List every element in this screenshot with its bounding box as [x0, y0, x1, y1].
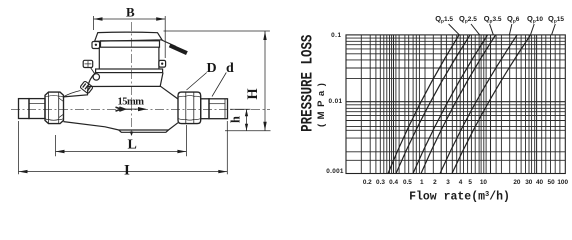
y axis labels	[326, 32, 344, 175]
flow-rate curve Qp15	[452, 35, 531, 174]
svg-text:0.01: 0.01	[328, 98, 342, 105]
svg-text:10: 10	[480, 179, 488, 186]
svg-text:0.001: 0.001	[326, 168, 344, 175]
svg-text:h: h	[229, 116, 243, 123]
svg-text:0.4: 0.4	[389, 179, 398, 186]
svg-text:B: B	[126, 4, 135, 19]
upper-left seal lug	[92, 42, 100, 49]
curve labels	[435, 14, 564, 24]
grid horizontal lines	[346, 38, 565, 160]
vertical centerline	[131, 22, 133, 134]
head rim	[96, 69, 163, 73]
svg-text:Qp3.5: Qp3.5	[484, 14, 502, 24]
seal wire to body	[64, 91, 81, 97]
right pipe spud	[209, 99, 228, 119]
water meter drawing	[11, 4, 271, 178]
svg-text:100: 100	[557, 179, 568, 186]
lid	[95, 32, 162, 41]
svg-text:Qp15: Qp15	[548, 14, 564, 24]
svg-text:I: I	[124, 163, 130, 179]
label D with leader	[187, 73, 207, 91]
svg-text:(MPa): (MPa)	[316, 79, 327, 127]
chart plot border	[346, 35, 565, 174]
seal wire loop	[93, 74, 99, 80]
dimension B	[94, 16, 166, 58]
svg-text:d: d	[226, 61, 234, 76]
svg-text:30: 30	[525, 179, 533, 186]
flow direction arrow	[116, 107, 125, 111]
lower-left seal lug	[83, 60, 93, 67]
register ring	[101, 41, 160, 47]
flow-rate curve Qp10	[440, 35, 517, 174]
grid vertical lines	[361, 35, 560, 174]
dimension h	[230, 109, 251, 130]
label d with leader	[212, 73, 226, 97]
dimension I (overall length)	[19, 121, 228, 174]
pressure-loss chart	[299, 14, 568, 203]
register head skirt	[88, 73, 163, 87]
svg-text:0.3: 0.3	[376, 179, 385, 186]
svg-text:1: 1	[420, 179, 424, 186]
centerline bottom arrow	[130, 132, 134, 137]
lid hinge tab	[161, 40, 177, 47]
flow-rate curve Qp3.5	[413, 35, 488, 174]
flow-rate curve Qp6	[421, 35, 496, 174]
svg-text:0.5: 0.5	[403, 179, 412, 186]
x tick labels	[363, 179, 569, 186]
svg-text:20: 20	[513, 179, 521, 186]
svg-text:Qp1.5: Qp1.5	[435, 14, 453, 24]
dimension L	[56, 125, 187, 156]
svg-text:0.1: 0.1	[331, 32, 341, 39]
right coupling nut	[178, 92, 201, 124]
svg-text:3: 3	[446, 179, 450, 186]
svg-text:PRESSURE LOSS: PRESSURE LOSS	[299, 34, 317, 132]
svg-text:Qp6: Qp6	[507, 14, 520, 24]
flow-rate curve Qp2.5	[396, 35, 470, 174]
svg-text:0.2: 0.2	[363, 179, 372, 186]
svg-text:50: 50	[548, 179, 556, 186]
svg-text:D: D	[207, 61, 217, 76]
left connector	[29, 99, 45, 119]
svg-text:40: 40	[536, 179, 544, 186]
svg-text:H: H	[245, 88, 261, 100]
right seal lug	[159, 60, 166, 67]
lead seal	[80, 81, 93, 94]
svg-text:15mm: 15mm	[118, 96, 145, 107]
svg-text:4: 4	[459, 179, 463, 186]
right connector	[201, 99, 209, 119]
dimension H	[164, 31, 271, 131]
svg-text:Qp2.5: Qp2.5	[459, 14, 477, 24]
svg-text:5: 5	[468, 179, 472, 186]
flow-rate curve Qp1.5	[388, 35, 459, 174]
horizontal centerline	[11, 109, 270, 111]
curve leader lines	[449, 24, 556, 35]
svg-text:Flow rate(m3/h): Flow rate(m3/h)	[409, 191, 510, 204]
svg-text:2: 2	[433, 179, 437, 186]
bottom plate	[119, 130, 169, 132]
left pipe spud	[19, 99, 30, 119]
meter body outline	[64, 86, 179, 99]
left coupling nut	[45, 92, 64, 124]
head case	[98, 47, 100, 69]
svg-text:L: L	[128, 138, 137, 153]
svg-text:Qp10: Qp10	[527, 14, 543, 24]
